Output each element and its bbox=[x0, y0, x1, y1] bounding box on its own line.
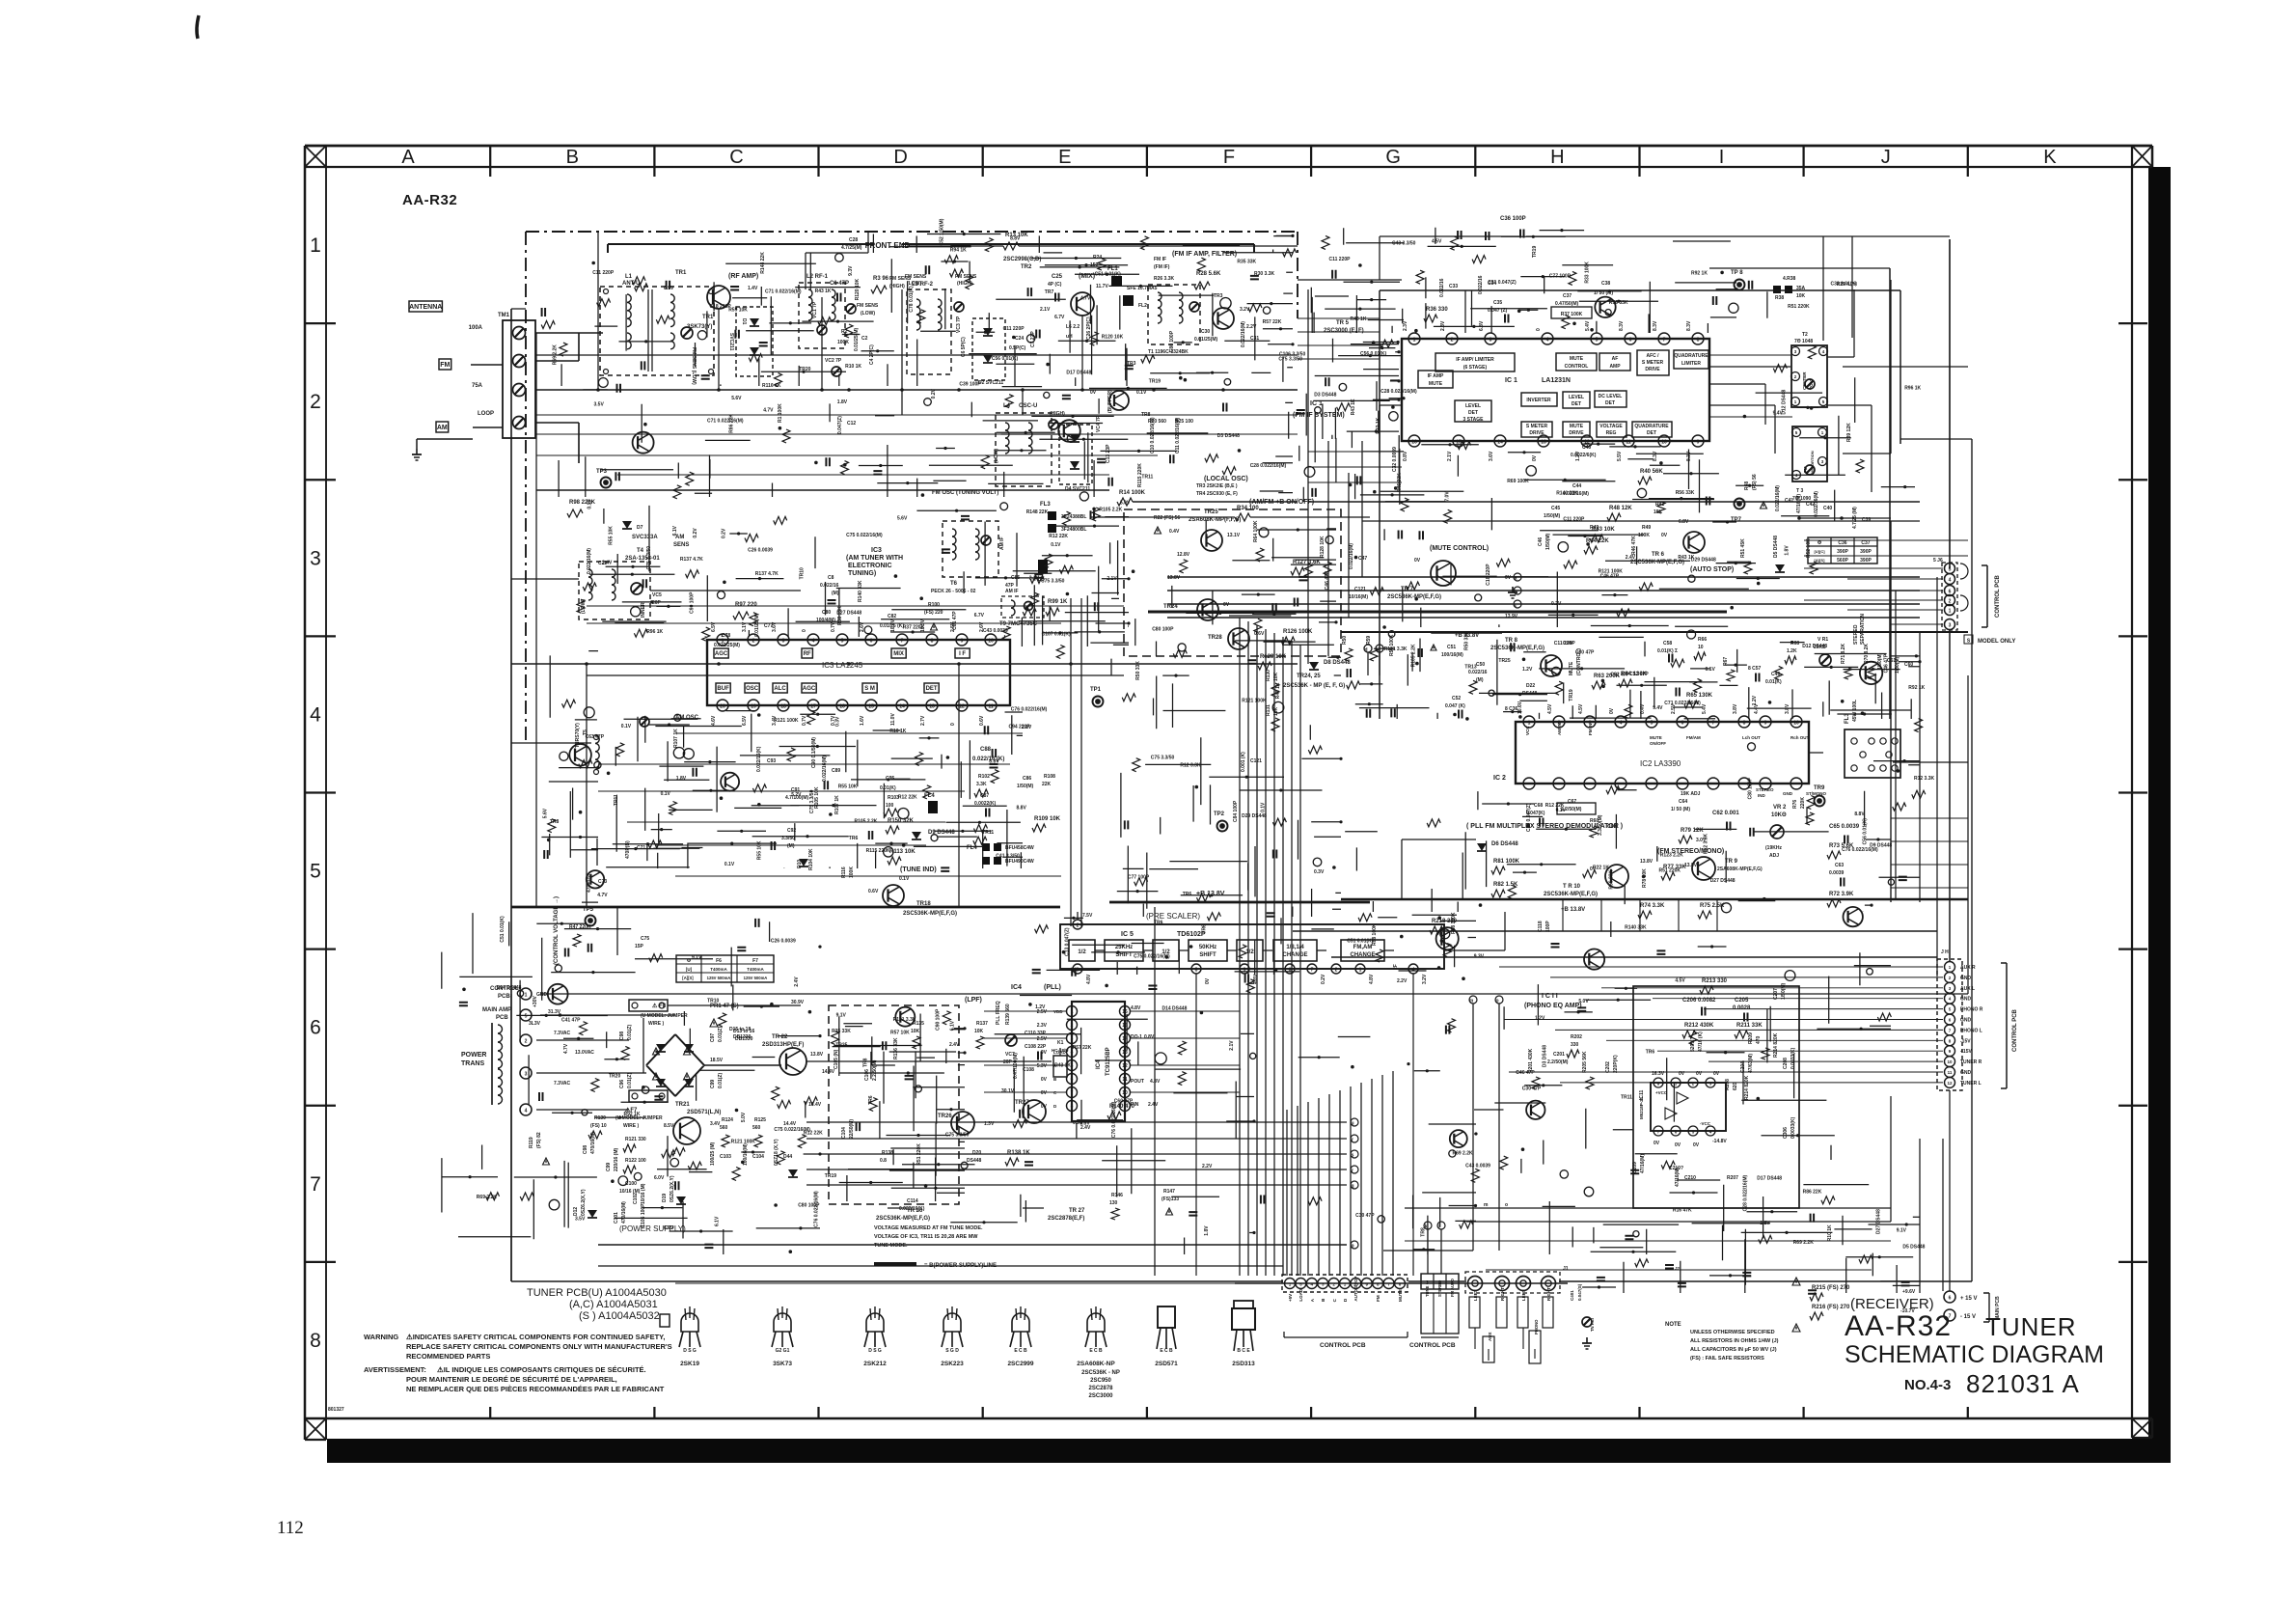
svg-text:(LOCAL OSC): (LOCAL OSC) bbox=[1204, 476, 1248, 482]
svg-text:DET: DET bbox=[1572, 401, 1581, 407]
svg-text:ALC: ALC bbox=[774, 686, 786, 692]
svg-text:AUTO STOP: AUTO STOP bbox=[1353, 1277, 1358, 1302]
svg-text:TR11: TR11 bbox=[1141, 475, 1153, 481]
svg-text:TR 6: TR 6 bbox=[1652, 552, 1665, 558]
svg-text:R150 32K: R150 32K bbox=[888, 818, 915, 824]
svg-text:11: 11 bbox=[1122, 1077, 1128, 1083]
svg-text:0V: 0V bbox=[1661, 533, 1668, 538]
svg-text:LEFT: LEFT bbox=[1473, 1290, 1478, 1301]
svg-text:1: 1 bbox=[1413, 338, 1416, 344]
svg-text:IC 2: IC 2 bbox=[1493, 775, 1506, 782]
svg-text:LOAD: LOAD bbox=[1298, 1288, 1303, 1301]
svg-text:0.1V: 0.1V bbox=[661, 791, 671, 797]
svg-text:2SA608K-NP: 2SA608K-NP bbox=[1077, 1361, 1115, 1367]
svg-text:FL2: FL2 bbox=[1138, 303, 1147, 309]
svg-text:10: 10 bbox=[988, 639, 994, 645]
svg-text:C306: C306 bbox=[1783, 1127, 1789, 1139]
svg-text:0.1V: 0.1V bbox=[621, 724, 632, 729]
svg-text:0.022/16: 0.022/16 bbox=[1478, 275, 1484, 294]
svg-text:2.4V: 2.4V bbox=[1626, 555, 1636, 561]
svg-text:q: q bbox=[1351, 1184, 1353, 1190]
svg-text:C76 0.022/16(M): C76 0.022/16(M) bbox=[1842, 847, 1878, 853]
svg-text:R12 3.3K: R12 3.3K bbox=[1914, 776, 1935, 782]
svg-text:DET: DET bbox=[1605, 400, 1615, 406]
svg-text:0V: 0V bbox=[1675, 1142, 1681, 1148]
svg-text:FL3: FL3 bbox=[1040, 502, 1051, 508]
svg-text:2SC536K - MP (E, F, G): 2SC536K - MP (E, F, G) bbox=[1283, 683, 1345, 689]
svg-text:10KΘ: 10KΘ bbox=[1771, 812, 1787, 818]
svg-text:S G D: S G D bbox=[945, 1348, 959, 1354]
svg-text:C67: C67 bbox=[1568, 799, 1576, 805]
svg-text:K1: K1 bbox=[1057, 1040, 1064, 1046]
svg-text:2.3V: 2.3V bbox=[1037, 1023, 1048, 1029]
svg-text:(AUTO STOP): (AUTO STOP) bbox=[1690, 566, 1734, 573]
svg-text:2SC536K-MP(E,F,G): 2SC536K-MP(E,F,G) bbox=[876, 1216, 930, 1222]
svg-text:13.1V: 13.1V bbox=[1227, 533, 1241, 538]
svg-text:(FS) 220: (FS) 220 bbox=[924, 610, 943, 616]
svg-text:TR 9: TR 9 bbox=[1725, 859, 1738, 865]
svg-text:2: 2 bbox=[1071, 1023, 1074, 1029]
svg-text:R59: R59 bbox=[1366, 636, 1372, 645]
svg-text:0V: 0V bbox=[1041, 1090, 1048, 1096]
svg-text:H: H bbox=[1550, 147, 1564, 168]
svg-text:0: 0 bbox=[950, 723, 956, 726]
svg-text:ANTENNA: ANTENNA bbox=[409, 304, 442, 311]
svg-text:2: 2 bbox=[310, 391, 321, 413]
svg-text:6.5V: 6.5V bbox=[742, 715, 748, 726]
svg-text:4.8V: 4.8V bbox=[1253, 974, 1259, 984]
svg-text:4.7V: 4.7V bbox=[563, 1043, 569, 1054]
svg-text:4.5V: 4.5V bbox=[1547, 703, 1553, 714]
svg-text:2.1V: 2.1V bbox=[1229, 1040, 1235, 1051]
svg-text:OSC: OSC bbox=[746, 686, 759, 692]
svg-text:G2 G1: G2 G1 bbox=[776, 1348, 790, 1354]
svg-text:13: 13 bbox=[929, 704, 935, 710]
svg-text:R215 (FS) 270: R215 (FS) 270 bbox=[1812, 1285, 1850, 1291]
svg-text:TR26: TR26 bbox=[938, 1114, 952, 1119]
svg-text:C75 0.022/16(M): C75 0.022/16(M) bbox=[774, 1127, 810, 1133]
svg-text:560: 560 bbox=[720, 1125, 728, 1131]
svg-text:o: o bbox=[1495, 999, 1498, 1004]
svg-text:C88: C88 bbox=[980, 747, 992, 753]
svg-text:2.2/50(M): 2.2/50(M) bbox=[1547, 1059, 1569, 1065]
svg-text:100/25 (M): 100/25 (M) bbox=[710, 1142, 716, 1166]
svg-text:0.0028: 0.0028 bbox=[1733, 1005, 1751, 1011]
svg-text:470P(B): 470P(B) bbox=[625, 840, 631, 859]
svg-text:R121 330: R121 330 bbox=[625, 1137, 646, 1142]
svg-text:2.2/50(M): 2.2/50(M) bbox=[872, 1059, 878, 1081]
svg-text:7: 7 bbox=[1071, 1090, 1074, 1096]
svg-text:⚠INDICATES SAFETY CRITICAL COM: ⚠INDICATES SAFETY CRITICAL COMPONENTS FO… bbox=[406, 1333, 665, 1341]
svg-text:STEREO: STEREO bbox=[1756, 787, 1774, 792]
svg-text:10K: 10K bbox=[974, 1029, 984, 1034]
svg-text:1: 1 bbox=[722, 639, 724, 645]
svg-text:LEFT: LEFT bbox=[1521, 1290, 1526, 1301]
svg-text:R137 4.7K: R137 4.7K bbox=[755, 571, 779, 577]
svg-text:9.1V: 9.1V bbox=[836, 1013, 847, 1019]
svg-text:D17 DS448: D17 DS448 bbox=[1757, 1176, 1782, 1182]
svg-text:T400mA: T400mA bbox=[710, 967, 727, 972]
svg-text:13: 13 bbox=[1541, 440, 1546, 446]
svg-text:D12 DS448: D12 DS448 bbox=[1802, 644, 1827, 649]
svg-text:2.2V: 2.2V bbox=[1202, 1164, 1213, 1169]
svg-text:FM/AM: FM/AM bbox=[1686, 735, 1701, 740]
svg-text:6.8V: 6.8V bbox=[1679, 519, 1689, 525]
svg-text:C28 0.022/16(M): C28 0.022/16(M) bbox=[1380, 389, 1417, 395]
svg-text:C90 100P: C90 100P bbox=[936, 1008, 942, 1031]
svg-text:D S G: D S G bbox=[683, 1348, 697, 1354]
svg-text:DET: DET bbox=[1647, 430, 1656, 436]
svg-text:5: 5 bbox=[525, 1014, 528, 1020]
svg-text:18: 18 bbox=[780, 704, 786, 710]
svg-text:POUT: POUT bbox=[1131, 1079, 1144, 1085]
svg-text:10: 10 bbox=[1698, 645, 1704, 650]
svg-text:8.8V: 8.8V bbox=[1010, 236, 1021, 242]
svg-text:[A][S]: [A][S] bbox=[682, 976, 694, 980]
svg-text:0.8V: 0.8V bbox=[1403, 451, 1408, 461]
svg-text:C44: C44 bbox=[1572, 483, 1581, 489]
svg-text:47/16(M): 47/16(M) bbox=[1796, 494, 1802, 513]
svg-text:R92 1K: R92 1K bbox=[624, 1112, 641, 1117]
svg-text:9.1V: 9.1V bbox=[1897, 1227, 1907, 1233]
svg-text:R140 33K: R140 33K bbox=[1625, 924, 1647, 930]
svg-text:12: 12 bbox=[1122, 1063, 1128, 1069]
svg-text:2SA608K-MP(E,F,G): 2SA608K-MP(E,F,G) bbox=[1717, 867, 1763, 872]
svg-text:D5 DS448: D5 DS448 bbox=[1902, 1245, 1925, 1251]
svg-text:R147: R147 bbox=[1163, 1189, 1175, 1195]
svg-text:F7: F7 bbox=[752, 958, 758, 964]
svg-text:4.7/25(M): 4.7/25(M) bbox=[841, 245, 862, 251]
svg-text:REG: REG bbox=[1606, 430, 1617, 436]
svg-text:TR25: TR25 bbox=[1204, 509, 1218, 515]
svg-text:1/2: 1/2 bbox=[1078, 949, 1086, 955]
svg-text:(6 STAGE): (6 STAGE) bbox=[1463, 365, 1488, 371]
svg-text:0.8: 0.8 bbox=[880, 1158, 887, 1164]
svg-text:TR10: TR10 bbox=[707, 998, 719, 1004]
svg-text:2SC2999: 2SC2999 bbox=[1007, 1361, 1033, 1367]
svg-text:9: 9 bbox=[1764, 721, 1767, 727]
svg-text:C75: C75 bbox=[641, 936, 649, 942]
svg-text:(FS) 82: (FS) 82 bbox=[536, 1132, 542, 1148]
svg-text:QUADRATURE: QUADRATURE bbox=[1674, 353, 1708, 359]
svg-text:C75 0.022/16(M): C75 0.022/16(M) bbox=[1134, 954, 1170, 960]
svg-text:IC2 LA3390: IC2 LA3390 bbox=[1640, 759, 1681, 768]
svg-text:R121 100K: R121 100K bbox=[1599, 569, 1624, 575]
svg-text:+5V: +5V bbox=[1288, 1294, 1293, 1302]
svg-text:REPLACE SAFETY CRITICAL COMPON: REPLACE SAFETY CRITICAL COMPONENTS ONLY … bbox=[406, 1342, 672, 1351]
svg-text:100K: 100K bbox=[1638, 533, 1650, 538]
svg-text:2SC3000 (E, F): 2SC3000 (E, F) bbox=[1324, 328, 1364, 334]
svg-text:R208: R208 bbox=[1725, 1079, 1731, 1090]
svg-text:INVERTER: INVERTER bbox=[1526, 398, 1551, 403]
svg-text:TR19: TR19 bbox=[825, 1173, 836, 1179]
svg-text:R109 10K: R109 10K bbox=[1034, 816, 1061, 822]
svg-text:TR 27: TR 27 bbox=[1069, 1208, 1085, 1214]
svg-text:C90 0.1/50(M): C90 0.1/50(M) bbox=[811, 737, 817, 768]
svg-text:4.7V: 4.7V bbox=[597, 893, 608, 898]
svg-text:R28 5.6K: R28 5.6K bbox=[1196, 271, 1221, 277]
svg-text:C202: C202 bbox=[1605, 1061, 1611, 1073]
svg-text:5.6V: 5.6V bbox=[731, 396, 742, 401]
svg-text:4: 4 bbox=[310, 703, 321, 726]
svg-text:AGC: AGC bbox=[715, 651, 728, 657]
svg-text:1/ 50 (M): 1/ 50 (M) bbox=[1671, 807, 1690, 812]
svg-text:R105 2.2K: R105 2.2K bbox=[1099, 508, 1122, 513]
svg-text:C209: C209 bbox=[1632, 1162, 1638, 1173]
svg-text:8: 8 bbox=[931, 639, 934, 645]
svg-text:C45: C45 bbox=[1551, 506, 1560, 511]
svg-text:2SC536K-MP(E,F,G): 2SC536K-MP(E,F,G) bbox=[903, 911, 957, 917]
svg-text:25KHz: 25KHz bbox=[1115, 945, 1133, 950]
svg-text:AA-R32: AA-R32 bbox=[1845, 1310, 1952, 1342]
svg-text:2: 2 bbox=[1335, 968, 1338, 974]
svg-text:R92 1K: R92 1K bbox=[1691, 271, 1708, 277]
svg-text:TR3: TR3 bbox=[1214, 293, 1223, 299]
svg-text:1/50(M): 1/50(M) bbox=[1017, 784, 1034, 789]
svg-text:C40: C40 bbox=[1823, 506, 1832, 511]
svg-text:560: 560 bbox=[752, 1125, 761, 1131]
svg-text:R121 3.3K: R121 3.3K bbox=[1384, 646, 1408, 652]
svg-text:R104 10K: R104 10K bbox=[808, 848, 814, 870]
svg-text:1.4V: 1.4V bbox=[748, 286, 758, 291]
svg-text:5: 5 bbox=[1596, 338, 1599, 344]
svg-text:R130: R130 bbox=[1266, 670, 1271, 681]
svg-text:C121: C121 bbox=[1250, 758, 1262, 764]
svg-text:9: 9 bbox=[961, 639, 964, 645]
svg-text:TR11: TR11 bbox=[1621, 1095, 1632, 1101]
svg-text:AVERTISSEMENT:: AVERTISSEMENT: bbox=[364, 1365, 426, 1374]
svg-text:C30: C30 bbox=[1201, 329, 1210, 335]
svg-text:PECK 26 - 5006 - 02: PECK 26 - 5006 - 02 bbox=[931, 589, 976, 594]
svg-text:RF: RF bbox=[804, 651, 811, 657]
svg-text:C52 47P: C52 47P bbox=[1629, 672, 1649, 677]
svg-text:18.5V: 18.5V bbox=[710, 1058, 724, 1063]
svg-text:(AM TUNER WITH: (AM TUNER WITH bbox=[846, 555, 903, 562]
svg-text:10.6V: 10.6V bbox=[890, 619, 896, 632]
svg-text:6: 6 bbox=[1629, 338, 1632, 344]
svg-text:R39 12K: R39 12K bbox=[1846, 423, 1852, 442]
svg-text:(POWER SUPPLY): (POWER SUPPLY) bbox=[619, 1224, 686, 1233]
svg-text:100/16(M): 100/16(M) bbox=[1441, 652, 1463, 658]
svg-text:2.1V: 2.1V bbox=[1040, 307, 1051, 313]
svg-text:13.8V: 13.8V bbox=[1167, 575, 1181, 581]
svg-text:5.6V: 5.6V bbox=[543, 808, 549, 818]
svg-text:4.7V: 4.7V bbox=[763, 408, 774, 414]
svg-text:GND: GND bbox=[1960, 997, 1972, 1003]
svg-text:6: 6 bbox=[870, 639, 873, 645]
svg-text:8.8V: 8.8V bbox=[1854, 811, 1865, 817]
svg-text:C47: C47 bbox=[1358, 556, 1367, 562]
svg-text:0V: 0V bbox=[1505, 575, 1512, 581]
svg-text:TR20: TR20 bbox=[609, 1073, 620, 1079]
svg-text:AGC: AGC bbox=[803, 686, 816, 692]
svg-text:r: r bbox=[1352, 1138, 1353, 1143]
svg-text:R131: R131 bbox=[1266, 704, 1271, 716]
svg-text:R107 1K: R107 1K bbox=[673, 729, 679, 748]
svg-text:75A: 75A bbox=[472, 383, 483, 389]
svg-text:C103: C103 bbox=[720, 1154, 731, 1160]
svg-text:R37 100K: R37 100K bbox=[1561, 312, 1583, 317]
svg-text:C39 100P: C39 100P bbox=[959, 381, 981, 387]
svg-text:3: 3 bbox=[1490, 338, 1492, 344]
svg-text:2SD571: 2SD571 bbox=[1155, 1361, 1178, 1367]
svg-text:0.6V: 0.6V bbox=[979, 715, 985, 726]
svg-text:6.7V: 6.7V bbox=[974, 613, 985, 619]
svg-text:C108: C108 bbox=[1023, 1067, 1034, 1073]
svg-text:R130: R130 bbox=[594, 1115, 606, 1121]
svg-text:R120 10K: R120 10K bbox=[855, 278, 861, 300]
svg-text:R29 4.7K: R29 4.7K bbox=[1837, 282, 1858, 288]
svg-text:2SA-1353-01: 2SA-1353-01 bbox=[625, 556, 660, 562]
svg-text:DO-1: DO-1 bbox=[1131, 1034, 1142, 1040]
svg-text:3.2V: 3.2V bbox=[1422, 974, 1428, 984]
svg-text:TC9125BP: TC9125BP bbox=[1106, 1047, 1111, 1076]
svg-text:R116 1K: R116 1K bbox=[762, 383, 781, 389]
svg-text:4P (C): 4P (C) bbox=[1048, 282, 1062, 288]
svg-text:FM: FM bbox=[440, 362, 450, 369]
svg-text:R14 100K: R14 100K bbox=[1119, 490, 1146, 496]
svg-text:D12: D12 bbox=[573, 1207, 579, 1216]
svg-text:R57 10K: R57 10K bbox=[890, 1031, 910, 1036]
svg-text:4.5V: 4.5V bbox=[1675, 978, 1685, 984]
svg-text:112: 112 bbox=[277, 1518, 304, 1538]
svg-text:R205 56K: R205 56K bbox=[1582, 1051, 1588, 1073]
svg-text:R123 2.2K: R123 2.2K bbox=[1660, 853, 1683, 859]
svg-text:FM: FM bbox=[1376, 1295, 1380, 1302]
svg-text:5: 5 bbox=[310, 861, 321, 883]
svg-text:R137 4.7K: R137 4.7K bbox=[680, 557, 703, 563]
svg-text:100A: 100A bbox=[469, 325, 483, 331]
svg-text:14.4V: 14.4V bbox=[822, 1069, 835, 1075]
svg-text:MUTE: MUTE bbox=[1570, 356, 1584, 362]
svg-text:C46: C46 bbox=[1538, 537, 1544, 546]
svg-text:V R1: V R1 bbox=[1818, 637, 1828, 643]
svg-text:3: 3 bbox=[1071, 1036, 1074, 1042]
svg-text:R99 1K: R99 1K bbox=[1048, 599, 1068, 605]
svg-text:u: u bbox=[1351, 1121, 1353, 1127]
svg-text:0.1V: 0.1V bbox=[899, 876, 910, 882]
svg-text:C8: C8 bbox=[828, 575, 834, 581]
svg-text:L2 RF-1: L2 RF-1 bbox=[806, 274, 829, 280]
svg-text:13.0VAC: 13.0VAC bbox=[575, 1050, 594, 1056]
svg-text:0.047 (K): 0.047 (K) bbox=[1445, 703, 1465, 709]
svg-text:0.2V: 0.2V bbox=[1321, 974, 1326, 984]
svg-text:R202: R202 bbox=[1571, 1034, 1582, 1040]
svg-text:12: 12 bbox=[1947, 1081, 1953, 1086]
svg-text:6.7V: 6.7V bbox=[1054, 315, 1065, 320]
svg-text:(LOW): (LOW) bbox=[907, 281, 921, 287]
svg-text:C28 0.022/16(M): C28 0.022/16(M) bbox=[1250, 463, 1287, 469]
svg-text:WIRE ): WIRE ) bbox=[648, 1021, 664, 1027]
svg-text:R10 1K: R10 1K bbox=[845, 364, 861, 370]
svg-text:TRANS: TRANS bbox=[461, 1060, 484, 1067]
svg-text:4: 4 bbox=[1620, 721, 1623, 727]
svg-text:D29 DS448: D29 DS448 bbox=[1242, 813, 1267, 819]
svg-text:R37 220K: R37 220K bbox=[903, 624, 925, 630]
svg-text:VC2 7P: VC2 7P bbox=[825, 358, 842, 364]
svg-text:2: 2 bbox=[1949, 599, 1952, 605]
svg-text:C15 0.047(Z): C15 0.047(Z) bbox=[1526, 803, 1532, 832]
svg-text:10: 10 bbox=[1793, 721, 1799, 727]
svg-text:390P: 390P bbox=[1837, 549, 1848, 555]
svg-text:MODEL ONLY: MODEL ONLY bbox=[1978, 639, 2015, 645]
svg-text:5.2V: 5.2V bbox=[791, 792, 802, 798]
svg-text:R121 100K: R121 100K bbox=[774, 718, 799, 724]
svg-text:100P: 100P bbox=[1545, 921, 1551, 932]
svg-text:ANT-U: ANT-U bbox=[622, 281, 640, 287]
svg-text:C118: C118 bbox=[1538, 921, 1544, 932]
svg-text:C25: C25 bbox=[1052, 274, 1063, 280]
svg-text:R81 100K: R81 100K bbox=[1493, 859, 1520, 865]
svg-text:2SC2878(E,F): 2SC2878(E,F) bbox=[1048, 1216, 1084, 1222]
svg-text:4.8V: 4.8V bbox=[1369, 974, 1375, 984]
svg-text:2.4V: 2.4V bbox=[949, 1042, 960, 1048]
svg-text:TR1: TR1 bbox=[675, 270, 687, 276]
svg-text:D1: D1 bbox=[741, 318, 747, 325]
svg-text:C99: C99 bbox=[606, 1163, 612, 1171]
svg-text:VOLTAGE: VOLTAGE bbox=[1599, 424, 1623, 429]
svg-text:D22: D22 bbox=[1526, 683, 1535, 689]
svg-text:47/16 (K): 47/16 (K) bbox=[1698, 1032, 1704, 1052]
svg-text:M5218P-21: M5218P-21 bbox=[1639, 1096, 1644, 1119]
svg-text:0.022/16(M): 0.022/16(M) bbox=[1814, 491, 1819, 517]
svg-text:6: 6 bbox=[1949, 590, 1952, 595]
svg-text:C71 0.022/16(M): C71 0.022/16(M) bbox=[765, 289, 802, 294]
svg-text:R102: R102 bbox=[978, 774, 990, 780]
svg-text:R65 130K: R65 130K bbox=[1686, 693, 1713, 699]
svg-text:S METER: S METER bbox=[1526, 424, 1548, 429]
svg-text:R214 820K: R214 820K bbox=[1744, 1075, 1750, 1100]
svg-text:D7: D7 bbox=[637, 525, 643, 531]
svg-text:1/50(M): 1/50(M) bbox=[1781, 982, 1787, 1000]
svg-text:13: 13 bbox=[1122, 1050, 1128, 1056]
svg-text:R76: R76 bbox=[1792, 800, 1798, 809]
svg-text:R86 22K: R86 22K bbox=[1803, 1189, 1822, 1195]
svg-text:RECOMMENDED PARTS: RECOMMENDED PARTS bbox=[406, 1352, 490, 1361]
svg-text:(A,C) A1004A5031: (A,C) A1004A5031 bbox=[569, 1299, 658, 1310]
svg-text:R56 33K: R56 33K bbox=[1676, 490, 1695, 496]
svg-text:IC 1: IC 1 bbox=[1505, 377, 1517, 384]
svg-text:TR8: TR8 bbox=[1421, 1227, 1427, 1237]
svg-text:4.5V: 4.5V bbox=[1578, 703, 1584, 714]
svg-text:5.6V: 5.6V bbox=[897, 516, 908, 522]
svg-text:CONTROL PCB: CONTROL PCB bbox=[2012, 1008, 2018, 1052]
svg-text:C12: C12 bbox=[847, 421, 856, 426]
svg-text:R43 1K: R43 1K bbox=[1351, 316, 1367, 322]
svg-text:R124: R124 bbox=[722, 1117, 733, 1123]
svg-text:2SC536K-MP(E,F,G): 2SC536K-MP(E,F,G) bbox=[1387, 594, 1441, 600]
svg-text:D19: D19 bbox=[662, 1194, 668, 1202]
svg-text:14: 14 bbox=[899, 704, 905, 710]
svg-text:2.1V: 2.1V bbox=[1447, 451, 1453, 461]
svg-text:TN RCI: TN RCI bbox=[1590, 1318, 1595, 1332]
svg-text:R12 22K: R12 22K bbox=[1049, 534, 1068, 539]
svg-text:D4 SVC211: D4 SVC211 bbox=[1065, 486, 1090, 492]
svg-text:C51 0.01(K): C51 0.01(K) bbox=[500, 916, 506, 943]
svg-text:C75 3.3/50: C75 3.3/50 bbox=[1151, 756, 1175, 761]
svg-text:3L3V: 3L3V bbox=[529, 1021, 541, 1027]
svg-text:R51 220K: R51 220K bbox=[1659, 867, 1681, 873]
svg-text:R12 22K: R12 22K bbox=[1545, 803, 1565, 809]
svg-text:0V: 0V bbox=[1090, 390, 1097, 396]
svg-text:R26 3.3K: R26 3.3K bbox=[1154, 276, 1175, 282]
svg-text:R57 22K: R57 22K bbox=[1263, 319, 1282, 325]
svg-text:o: o bbox=[1505, 1202, 1508, 1208]
svg-text:(FM IF AMP, FILTER): (FM IF AMP, FILTER) bbox=[1172, 251, 1237, 258]
svg-text:6: 6 bbox=[1681, 721, 1684, 727]
svg-text:0.1V: 0.1V bbox=[1706, 667, 1716, 673]
svg-text:C37: C37 bbox=[1861, 540, 1870, 546]
